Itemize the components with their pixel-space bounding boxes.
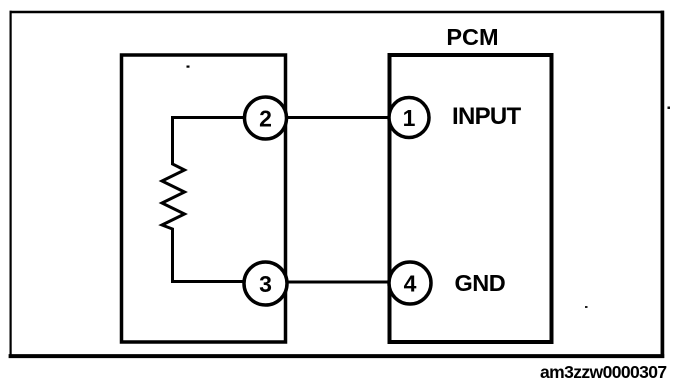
- svg-text:4: 4: [404, 270, 417, 296]
- svg-text:2: 2: [259, 105, 272, 131]
- svg-text:GND: GND: [455, 270, 506, 296]
- svg-text:PCM: PCM: [446, 24, 498, 50]
- svg-text:3: 3: [259, 271, 272, 297]
- svg-text:INPUT: INPUT: [452, 103, 522, 130]
- svg-text:am3zzw0000307: am3zzw0000307: [540, 362, 666, 382]
- svg-text:1: 1: [403, 105, 416, 131]
